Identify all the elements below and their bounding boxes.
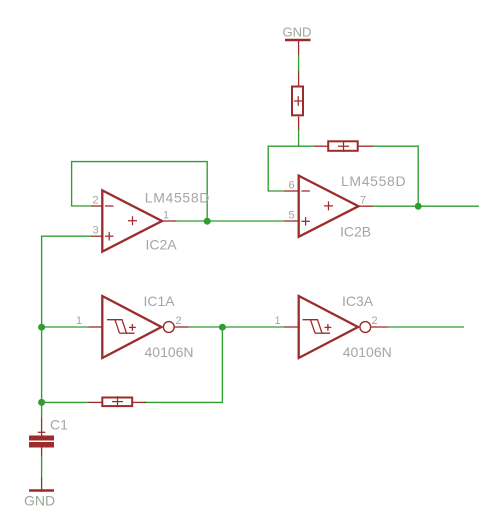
- svg-text:IC3A: IC3A: [342, 293, 374, 309]
- svg-text:2: 2: [93, 195, 99, 207]
- svg-text:IC1A: IC1A: [144, 293, 176, 309]
- svg-text:1: 1: [275, 315, 281, 327]
- svg-text:5: 5: [289, 210, 295, 222]
- svg-text:1: 1: [76, 315, 82, 327]
- svg-text:40106N: 40106N: [145, 344, 194, 360]
- svg-text:IC2B: IC2B: [340, 223, 371, 239]
- svg-text:6: 6: [289, 180, 295, 192]
- svg-text:2: 2: [372, 315, 378, 327]
- svg-text:IC2A: IC2A: [146, 237, 178, 253]
- svg-text:40106N: 40106N: [343, 344, 392, 360]
- svg-text:3: 3: [93, 225, 99, 237]
- svg-text:GND: GND: [24, 492, 55, 508]
- svg-text:C1: C1: [50, 417, 68, 433]
- svg-text:2: 2: [176, 315, 182, 327]
- svg-text:1: 1: [163, 210, 169, 222]
- svg-text:LM4558D: LM4558D: [145, 189, 210, 205]
- svg-text:GND: GND: [283, 24, 312, 39]
- svg-text:LM4558D: LM4558D: [341, 173, 406, 189]
- svg-text:7: 7: [360, 195, 366, 207]
